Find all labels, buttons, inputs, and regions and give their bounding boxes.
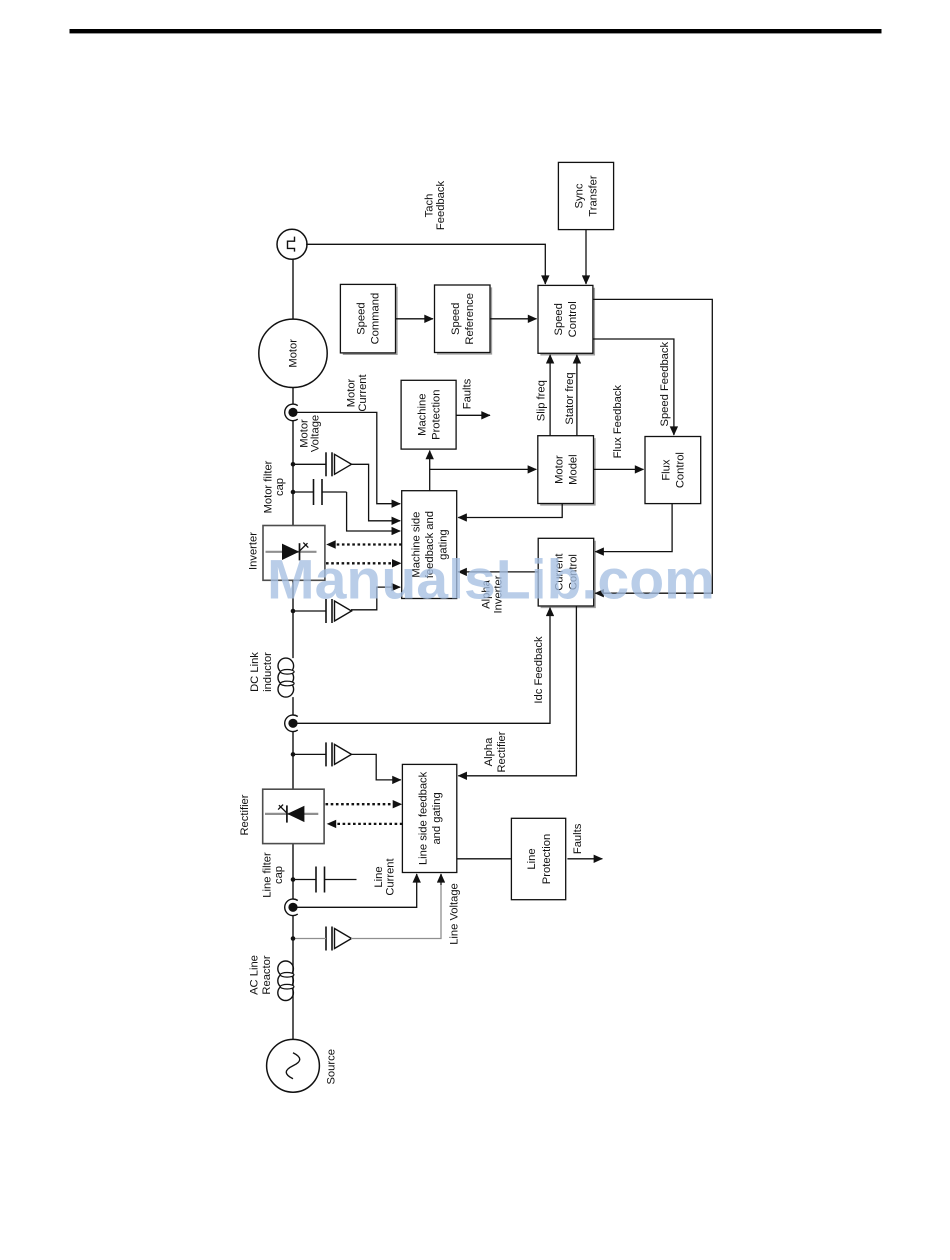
svg-text:Speed: Speed [450, 303, 462, 335]
svg-text:Rectifier: Rectifier [239, 794, 251, 835]
svg-text:Inverter: Inverter [248, 532, 260, 570]
svg-text:Reactor: Reactor [261, 955, 273, 994]
svg-text:Line: Line [526, 848, 538, 869]
svg-text:Motor: Motor [346, 378, 358, 407]
svg-text:Line side feedback: Line side feedback [418, 771, 430, 865]
svg-text:Control: Control [675, 452, 687, 488]
svg-text:Reference: Reference [464, 293, 476, 345]
svg-text:Feedback: Feedback [435, 181, 447, 231]
svg-text:and gating: and gating [431, 792, 443, 844]
svg-text:Current: Current [385, 857, 397, 895]
svg-text:Motor filter: Motor filter [263, 460, 275, 513]
svg-text:Motor: Motor [553, 455, 565, 484]
svg-text:Faults: Faults [461, 378, 473, 409]
svg-text:Machine: Machine [416, 394, 428, 436]
svg-text:Line filter: Line filter [262, 852, 274, 898]
svg-text:Line Voltage: Line Voltage [449, 883, 461, 945]
svg-text:Transfer: Transfer [588, 175, 600, 217]
svg-text:ManualsLib.com: ManualsLib.com [267, 548, 715, 611]
svg-text:Model: Model [567, 454, 579, 484]
svg-text:Flux Feedback: Flux Feedback [612, 385, 624, 459]
svg-text:Current: Current [357, 373, 369, 411]
svg-text:Control: Control [567, 301, 579, 337]
svg-text:Speed Feedback: Speed Feedback [659, 342, 671, 427]
svg-text:Motor: Motor [288, 339, 300, 368]
svg-text:cap: cap [274, 478, 286, 496]
svg-text:Speed: Speed [356, 302, 368, 334]
svg-text:Idc Feedback: Idc Feedback [533, 636, 545, 704]
svg-text:Rectifier: Rectifier [496, 731, 508, 772]
svg-text:AC Line: AC Line [249, 955, 261, 995]
svg-text:cap: cap [273, 866, 285, 884]
svg-text:Protection: Protection [430, 390, 442, 440]
svg-text:Faults: Faults [572, 823, 584, 854]
svg-text:Protection: Protection [541, 834, 553, 884]
svg-text:DC Link: DC Link [249, 652, 261, 692]
svg-text:Source: Source [326, 1049, 338, 1084]
svg-text:Sync: Sync [574, 183, 586, 208]
svg-text:inductor: inductor [262, 652, 274, 692]
svg-text:Flux: Flux [661, 459, 673, 481]
svg-text:Tach: Tach [423, 194, 435, 218]
svg-text:Alpha: Alpha [483, 737, 495, 766]
svg-text:Stator freq: Stator freq [564, 372, 576, 424]
svg-text:Voltage: Voltage [310, 415, 322, 452]
svg-text:Slip freq: Slip freq [536, 380, 548, 421]
svg-text:Line: Line [373, 866, 385, 887]
svg-text:Command: Command [370, 293, 382, 345]
svg-text:Speed: Speed [553, 303, 565, 335]
